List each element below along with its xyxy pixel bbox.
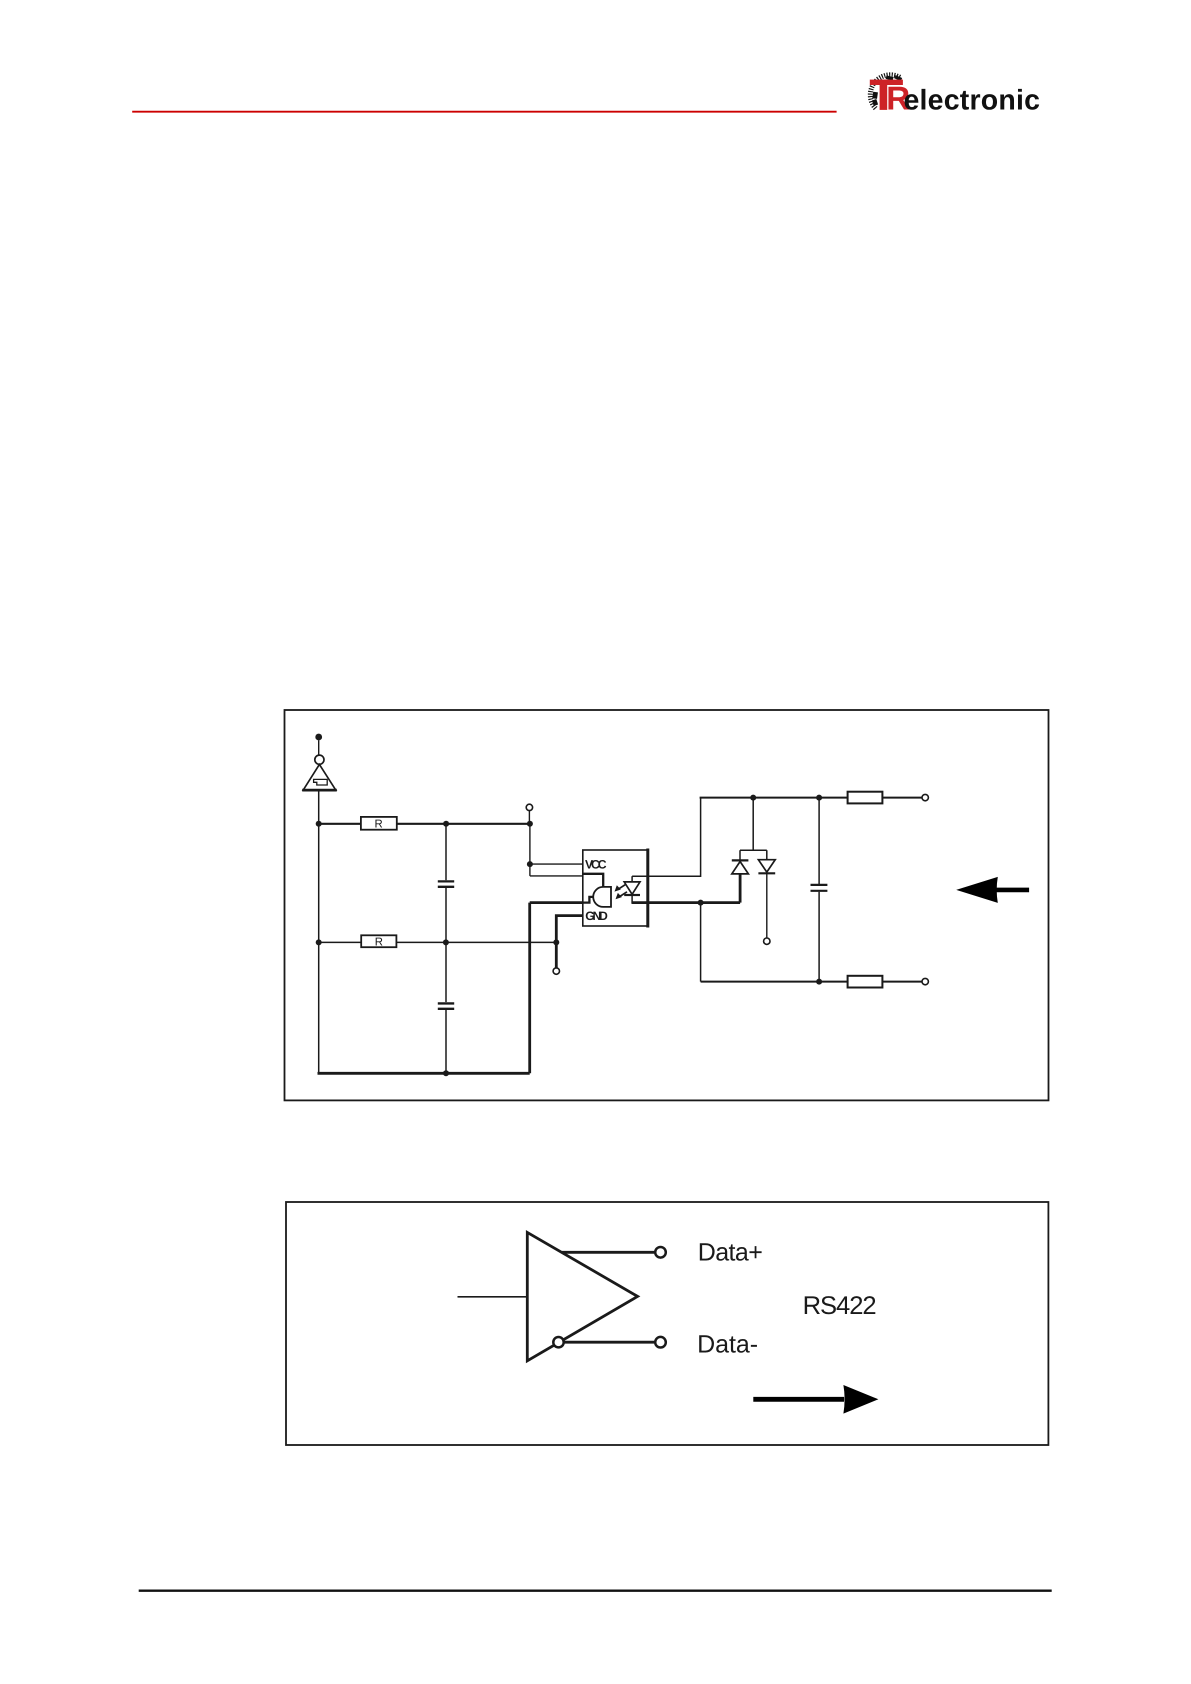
schematic frame box 2: [286, 1202, 1048, 1445]
logo encoder-disc dashed arc: [870, 75, 900, 109]
terminal circle data line 1: [922, 794, 928, 800]
wire emitter return horizontal: [530, 901, 583, 904]
wire row1 right: [397, 823, 530, 825]
inverter bubble: [553, 1337, 563, 1347]
wire R3 to terminal: [882, 797, 922, 799]
svg-text:R: R: [375, 818, 383, 830]
junction rail-diodes: [750, 795, 756, 801]
wire diode hanger: [740, 798, 767, 861]
capacitor C3: [811, 885, 828, 891]
diode D2 cathode bar: [758, 872, 775, 874]
wire led top out: [632, 798, 701, 877]
resistor R4: [848, 976, 883, 988]
left bus wire: [318, 790, 320, 1073]
terminal circle data line 2: [922, 978, 928, 984]
optocoupler U1 body: [583, 850, 648, 926]
light arrow 1: [618, 884, 626, 889]
junction rail-cap: [816, 795, 822, 801]
terminal circle above row1: [526, 804, 532, 810]
wire cap C3 lower: [818, 892, 820, 982]
wire D1 anode: [739, 874, 742, 903]
wire row2 right: [396, 941, 556, 943]
top rail wire: [700, 797, 848, 799]
svg-text:Data-: Data-: [697, 1330, 758, 1358]
logo encoder-disc coarse segments: [872, 75, 902, 106]
wire detector step: [583, 897, 594, 903]
wire return vertical: [700, 903, 702, 982]
wire R4 to terminal: [882, 981, 922, 983]
wire output Data-: [564, 1341, 655, 1344]
signal direction arrow right: [753, 1385, 878, 1414]
logo letter T: [870, 80, 903, 110]
resistor R3: [848, 792, 883, 804]
svg-text:R: R: [375, 937, 383, 949]
capacitor C2: [438, 1003, 454, 1008]
node dot top-left: [315, 734, 322, 741]
signal direction arrow left: [956, 877, 1029, 903]
junction bottomrail-cap: [816, 979, 822, 985]
optocoupler right edge: [646, 849, 649, 928]
photodetector D-shape: [593, 887, 611, 907]
bottom bus wire: [318, 1072, 530, 1075]
bottom rail wire: [701, 981, 848, 983]
earth terminal circle: [315, 755, 324, 764]
light arrow 2: [619, 892, 627, 897]
wire gnd pin: [556, 916, 583, 968]
junction row1-capbranch: [443, 821, 449, 827]
terminal circle gnd: [553, 968, 559, 974]
junction cathode-return: [698, 900, 704, 906]
wire cap branch lower: [445, 942, 447, 1002]
resistor R1: [361, 817, 397, 830]
wire driver input: [458, 1296, 528, 1298]
wire cap branch upper: [445, 824, 447, 880]
junction gnd-row2: [553, 939, 559, 945]
terminal circle Data+: [655, 1247, 666, 1258]
svg-text:electronic: electronic: [904, 84, 1041, 116]
wire internal vcc to detector: [583, 874, 603, 887]
wire D2 to terminal: [766, 873, 768, 938]
footer rule: [139, 1590, 1052, 1592]
led D2 triangle: [624, 882, 640, 894]
diode D1 cathode bar: [732, 859, 749, 861]
wire row1 left: [319, 823, 361, 825]
wire emitter return vertical: [528, 903, 531, 1074]
driver buffer triangle: [527, 1232, 637, 1360]
junction row1-vccbranch: [527, 821, 533, 827]
header red rule: [132, 111, 836, 113]
junction bottom bus: [443, 1070, 449, 1076]
svg-text:RS422: RS422: [803, 1292, 877, 1320]
wire output Data+: [562, 1251, 655, 1254]
wire vcc branch vertical: [529, 824, 531, 876]
wire cap branch mid: [445, 888, 447, 942]
wire vcc pin: [530, 863, 583, 865]
led anode stub: [631, 876, 633, 882]
diode D1: [732, 862, 749, 874]
terminal circle D2: [764, 938, 770, 944]
diode D2: [758, 860, 775, 872]
svg-text:VCC: VCC: [585, 857, 607, 871]
terminal circle Data-: [655, 1337, 666, 1348]
earth inner symbol: [314, 779, 328, 785]
junction row2-bus: [316, 939, 322, 945]
wire led cathode out: [632, 901, 740, 904]
junction vcc: [527, 861, 533, 867]
resistor R2: [361, 935, 396, 947]
svg-text:Data+: Data+: [698, 1239, 763, 1267]
protective earth triangle: [303, 764, 336, 790]
wire terminal to row1: [528, 811, 530, 824]
svg-text:GND: GND: [585, 909, 608, 923]
wire row2 left: [319, 941, 362, 943]
wire anode feed: [530, 875, 583, 877]
capacitor C1: [438, 881, 454, 886]
wire cap C3 upper: [818, 798, 820, 884]
earth triangle base: [302, 789, 337, 792]
led cathode stub: [631, 895, 633, 904]
schematic frame box 1: [285, 710, 1049, 1100]
junction row2-capbranch: [443, 939, 449, 945]
wire dot to earth symbol: [318, 740, 320, 755]
wire cap branch bottom: [445, 1010, 447, 1073]
junction row1-bus: [316, 821, 322, 827]
led cathode bar: [624, 894, 640, 896]
